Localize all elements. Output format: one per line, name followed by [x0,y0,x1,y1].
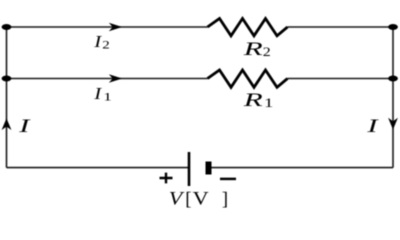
svg-text:]: ] [222,189,228,210]
svg-text:V: V [193,189,209,209]
svg-text:1: 1 [264,97,273,110]
svg-text:R: R [243,38,263,59]
svg-text:I: I [93,85,103,104]
svg-text:[: [ [185,189,191,210]
svg-text:I: I [18,115,31,136]
svg-text:V: V [169,189,185,209]
svg-text:1: 1 [103,91,112,104]
svg-text:I: I [366,115,379,136]
svg-text:R: R [243,89,263,110]
svg-text:2: 2 [102,38,109,51]
svg-text:2: 2 [263,46,271,60]
